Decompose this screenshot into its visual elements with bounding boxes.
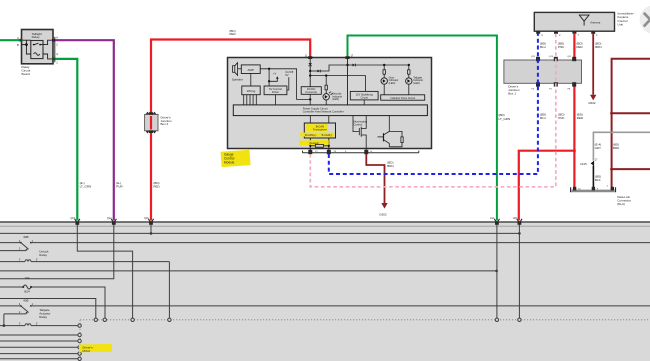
- wire DC/DC to controller: [309, 94, 311, 105]
- svg-text:Relay: Relay: [39, 253, 47, 257]
- junction dot door indicator: [383, 64, 385, 66]
- wire red from immobilizer down to DLC: [573, 33, 575, 189]
- wire: red BD feed from panel up and into gauge module: [151, 40, 310, 221]
- label (BD) PNK lower: [558, 112, 564, 120]
- svg-text:Antenna: Antenna: [590, 20, 601, 24]
- driver's MICU junction box panel: [0, 222, 650, 361]
- wire BRN from module pin H to ground: [366, 154, 384, 203]
- label (BD) RED lower: [577, 112, 584, 120]
- B-CAN pins down: [310, 138, 329, 150]
- wire: green feed inside panel from x=77.3: [77, 224, 132, 318]
- junction dot at 81.3: [268, 80, 270, 82]
- taillight relay internal wiring: [22, 40, 54, 59]
- security indicator label: [332, 92, 342, 102]
- junction dot red feed 71: [309, 70, 311, 72]
- wire: bus from red entry to left at 233.4: [0, 224, 519, 233]
- svg-text:(LED): (LED): [389, 81, 396, 85]
- wire 5V driver to controller: [275, 95, 277, 105]
- junction dot DC/DC bottom: [309, 98, 311, 100]
- junction dot tailgate indicator: [408, 64, 410, 66]
- Q2 emitter resistor: [401, 137, 403, 143]
- junction dot at (519.4,233.4): [518, 232, 521, 235]
- junction dots CAN termination: [309, 145, 311, 147]
- transistor Q2: [378, 116, 403, 147]
- svg-text:Converter: Converter: [305, 90, 317, 94]
- svg-text:A: A: [56, 52, 58, 56]
- junction dot at (151,233.4): [150, 232, 153, 235]
- junction dot brown 113: [610, 112, 613, 115]
- data link connector label: [617, 195, 631, 206]
- svg-text:LT_GRN: LT_GRN: [80, 184, 92, 188]
- wire B-CAN(+) pink dashed: [310, 33, 556, 187]
- diode D2 right branch: [310, 65, 347, 72]
- svg-text:PNK: PNK: [558, 45, 564, 49]
- junction dot red feed 75.6: [309, 74, 311, 76]
- speaker: [233, 63, 242, 76]
- driver's MICU label highlighted: [79, 344, 112, 353]
- svg-text:G502: G502: [588, 101, 596, 105]
- gated label highlighted: [299, 140, 329, 145]
- label (BD) LT_GRN right: [499, 113, 511, 121]
- red entry vertical inside panel: [518, 224, 520, 318]
- svg-text:A: A: [17, 36, 19, 40]
- svg-text:G502: G502: [379, 212, 387, 216]
- module top pin 11 (red): [305, 56, 313, 59]
- svg-text:A: A: [56, 36, 58, 40]
- relay right connector marks: [52, 39, 55, 42]
- module bottom connector strip: [303, 150, 419, 154]
- svg-text:MICU: MICU: [83, 349, 91, 353]
- Q2 emitter wire: [389, 143, 402, 147]
- svg-text:AMP: AMP: [247, 68, 254, 72]
- junction dot red branch: [573, 149, 576, 152]
- label (BD) BLK: [595, 175, 601, 183]
- junction dot AMP branch: [268, 68, 270, 70]
- tailgate indicator label: [413, 75, 423, 85]
- green entry vertical inside panel: [496, 224, 498, 318]
- data link connector DLC: [571, 185, 616, 192]
- tailgate indicator resistor: [408, 65, 410, 74]
- tailgate actuator relay 40B: [19, 298, 51, 325]
- svg-text:GRY: GRY: [595, 146, 601, 150]
- module top pin 17 (green): [345, 56, 353, 59]
- wire: unlock relay coil line y=261.6 with coil: [0, 260, 169, 318]
- svg-text:Relay: Relay: [39, 315, 47, 319]
- svg-text:(DLC): (DLC): [617, 202, 625, 206]
- wires under wiring box: [244, 95, 257, 105]
- immobilizer-keyless control unit box: [534, 12, 614, 31]
- dotted MICU boundary: [80, 320, 650, 361]
- wire: purple feed line y=278.8: [0, 224, 114, 279]
- svg-text:Indicator Drive Circuit: Indicator Drive Circuit: [390, 96, 415, 100]
- svg-text:RED: RED: [576, 45, 583, 49]
- wire: bus y=270.9 to green entry vertical: [0, 270, 497, 272]
- connector C105 pin 17: [580, 159, 598, 167]
- label (BD) BRN upper: [595, 42, 601, 50]
- relay circuit board label: [22, 65, 31, 76]
- svg-text:C105: C105: [580, 162, 587, 166]
- junction dot security branch: [325, 74, 327, 76]
- junction dot at (3.9,325.6): [3, 324, 6, 327]
- wire: purple taillight output to panel: [53, 40, 114, 220]
- wire 12V branch: [310, 76, 365, 92]
- taillight relay junction dot B: [25, 43, 28, 47]
- diode D3 indicator rail: [348, 64, 409, 67]
- wire: tailgate relay contact bus y=305.9: [0, 306, 650, 326]
- driver's junction box 2 connector on red wire: [145, 112, 172, 134]
- wire B-CAN(-) blue dashed: [329, 33, 538, 174]
- svg-text:Driver: Driver: [272, 90, 279, 94]
- panel entry connector red Q16: [144, 218, 153, 225]
- svg-text:RED: RED: [153, 184, 160, 188]
- junction dot at (496.6,270.9): [495, 270, 498, 273]
- wire green entry through module: [347, 59, 349, 105]
- label (BD) BLU upper: [540, 42, 546, 50]
- label (E-4) GRY: [595, 143, 602, 151]
- wire: bus y=298.5: [0, 299, 96, 319]
- svg-text:BRN: BRN: [613, 146, 619, 150]
- svg-text:40B: 40B: [23, 235, 28, 239]
- relay left connector marks: [20, 39, 23, 42]
- indicator drive circuit box: [381, 95, 425, 100]
- svg-text:B24: B24: [24, 290, 30, 294]
- svg-text:Unit: Unit: [618, 22, 624, 26]
- label (BD) RED top: [229, 29, 236, 36]
- svg-text:B: B: [17, 43, 19, 47]
- svg-text:5V: 5V: [285, 73, 288, 77]
- illumination control label: [354, 119, 368, 126]
- svg-text:BRN: BRN: [387, 164, 393, 168]
- wire: green from module top to right and down to panel: [348, 36, 497, 221]
- svg-text:1G5: 1G5: [513, 218, 518, 220]
- panel entry connector green right 1G1: [490, 218, 499, 225]
- svg-text:PUR: PUR: [116, 184, 123, 188]
- junction box 1 connector pins top: [531, 56, 576, 61]
- svg-text:Q19: Q19: [71, 218, 76, 220]
- door indicator label: [389, 75, 399, 85]
- wire 12V box to controller: [363, 100, 365, 105]
- junction dot green rail: [346, 64, 348, 66]
- wires controller to B-CAN: [310, 116, 329, 123]
- svg-text:PNK: PNK: [558, 116, 564, 120]
- label (BD) RED upper: [576, 42, 583, 50]
- svg-text:Q12: Q12: [107, 218, 112, 220]
- B-CAN transceiver box: [300, 123, 336, 138]
- wire brown immobilizer to ground: [592, 33, 594, 95]
- +V pin: [269, 72, 278, 82]
- unlock relay coil pin numbers: [19, 258, 38, 262]
- 5V control driver box: [264, 86, 287, 95]
- panel entry connector green Q19: [71, 218, 80, 225]
- navigation chevron: [640, 5, 650, 34]
- wire: green taillight output down to panel: [53, 59, 77, 221]
- svg-text:RED: RED: [229, 32, 236, 36]
- svg-text:LT_GRN: LT_GRN: [499, 117, 511, 121]
- taillight relay circuit board: [22, 30, 54, 64]
- taillight relay pin labels: [17, 36, 58, 65]
- gauge control module label highlighted: [221, 150, 251, 167]
- wire black to DLC: [592, 166, 594, 189]
- wire red branch to panel: [519, 151, 575, 221]
- fuse end dots: [22, 286, 24, 288]
- label (BD) BLU lower: [540, 112, 546, 120]
- security indicator resistor: [325, 76, 327, 90]
- driver's junction box 1: [504, 60, 582, 95]
- DC/DC converter box: [301, 87, 321, 95]
- wire brown right circuit: [612, 59, 650, 188]
- ground G502 module: [379, 203, 387, 216]
- 12V stabilizing circuit box: [350, 91, 378, 100]
- illumination FET Q1: [353, 116, 366, 151]
- connector pin circles on dotted boundary: [78, 318, 521, 360]
- svg-text:BLU: BLU: [540, 116, 546, 120]
- AMP box U-amp: [241, 65, 260, 74]
- wiring box: [242, 86, 260, 95]
- tailgate indicator LED: [406, 74, 412, 95]
- junction box 1 connector pins bottom: [531, 82, 576, 90]
- svg-text:Box 2: Box 2: [161, 122, 169, 126]
- svg-text:Control: Control: [354, 122, 363, 126]
- svg-text:BLK: BLK: [595, 178, 601, 182]
- panel entry connector red right 1G5: [513, 218, 522, 225]
- svg-text:+V: +V: [273, 72, 277, 76]
- svg-text:10A: 10A: [24, 276, 29, 280]
- taillight relay contact dots: [33, 44, 35, 46]
- label (BD) BRN module: [387, 160, 393, 168]
- svg-text:Board: Board: [22, 72, 31, 76]
- wire gray E-4 GRY: [593, 132, 650, 161]
- svg-text:Module: Module: [224, 161, 235, 165]
- power supply circuit controller box: [233, 105, 427, 116]
- svg-text:Transceiver: Transceiver: [313, 128, 327, 132]
- svg-text:1G1: 1G1: [490, 218, 495, 220]
- security indicator LED: [323, 90, 333, 105]
- junction dot brown 169: [610, 168, 613, 171]
- label (E-) LT_GRN left: [80, 181, 92, 189]
- svg-text:Wiring: Wiring: [247, 89, 256, 93]
- unlock relay 40B: [19, 235, 49, 257]
- svg-text:Box 1: Box 1: [508, 91, 516, 95]
- svg-text:40B: 40B: [23, 298, 28, 302]
- taillight relay right connector strip: [54, 37, 56, 62]
- label (BD) BRN right: [613, 143, 619, 151]
- wire: green feed into taillight relay: [0, 39, 22, 41]
- svg-text:B-CAN(-): B-CAN(-): [322, 133, 333, 137]
- svg-text:Q16: Q16: [144, 218, 149, 220]
- gauge control module box: [228, 58, 432, 149]
- immobilizer pins: [536, 31, 598, 37]
- label (E-) PUR: [116, 181, 123, 189]
- wire AMP branch down to 5V driver: [268, 69, 270, 86]
- panel entry connector purple Q12: [107, 218, 116, 225]
- antenna symbol: [579, 15, 589, 26]
- label (BD) RED left: [153, 181, 160, 189]
- fuse B24 10A line y=287: [0, 285, 105, 318]
- door indicator resistor: [383, 65, 385, 74]
- svg-text:B-CAN(+): B-CAN(+): [305, 133, 316, 137]
- wire AMP output to DC/DC bottom node: [260, 69, 310, 100]
- svg-text:(LED): (LED): [413, 81, 420, 85]
- svg-text:BLU: BLU: [540, 45, 546, 49]
- door indicator LED: [381, 74, 387, 95]
- wire: unlock relay contact bus y=242.6: [0, 243, 650, 251]
- svg-text:Relay: Relay: [32, 35, 40, 39]
- diode D1 on red feed: [309, 59, 312, 87]
- wire: tailgate relay coil line y=325.6: [0, 324, 78, 326]
- svg-text:Speaker: Speaker: [232, 77, 243, 81]
- wire AMP to wiring: [250, 74, 252, 87]
- MICU output wires to left connector pins: [0, 335, 78, 359]
- CAN termination resistor: [310, 144, 329, 147]
- svg-text:Circuit: Circuit: [361, 95, 369, 99]
- label (BD) PNK upper: [558, 42, 564, 50]
- svg-text:Controller Area Network Contro: Controller Area Network Controller: [303, 110, 344, 114]
- svg-text:(LED): (LED): [332, 97, 339, 101]
- On/Off 5V pin: [285, 70, 293, 90]
- svg-text:RED: RED: [577, 116, 584, 120]
- ground G502 immobilizer: [588, 95, 596, 105]
- svg-text:BRN: BRN: [595, 45, 601, 49]
- immobilizer-keyless control unit label: [618, 12, 635, 27]
